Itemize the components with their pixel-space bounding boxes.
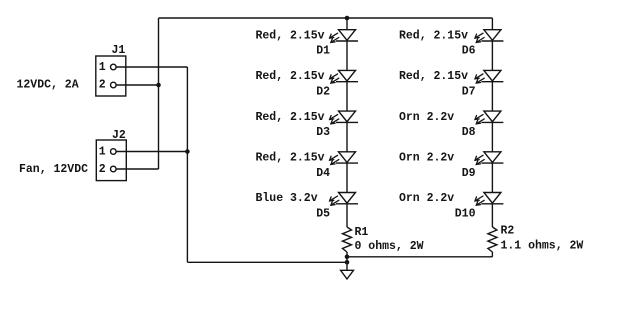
- wire right LED column: [491, 18, 493, 227]
- LED D5: [330, 193, 358, 206]
- LED D8: [475, 111, 503, 124]
- junction dot R1 / right bus: [345, 254, 350, 259]
- svg-text:Fan, 12VDC: Fan, 12VDC: [19, 163, 88, 176]
- wire top bus: [159, 17, 493, 19]
- svg-text:D7: D7: [462, 85, 476, 98]
- wire left LED column: [346, 18, 348, 227]
- junction dot bottom bus / ground: [345, 260, 350, 265]
- svg-text:Orn 2.2v: Orn 2.2v: [399, 152, 454, 165]
- wire R2 bottom lead: [491, 252, 493, 257]
- resistor R2: [488, 227, 497, 252]
- svg-text:Orn 2.2v: Orn 2.2v: [399, 192, 454, 205]
- LED D7: [475, 70, 503, 83]
- LED D3: [330, 111, 358, 124]
- connector J1: [96, 56, 126, 96]
- svg-text:Red, 2.15v: Red, 2.15v: [256, 152, 325, 165]
- svg-text:D5: D5: [316, 208, 330, 221]
- svg-text:R2: R2: [501, 225, 515, 238]
- wire line A vertical (top bus to J2.2): [158, 18, 160, 169]
- svg-text:D10: D10: [455, 208, 476, 221]
- svg-text:D4: D4: [316, 167, 330, 180]
- wire J2 pin1 to line B: [116, 151, 187, 153]
- resistor R1: [343, 227, 352, 252]
- LED D9: [475, 152, 503, 165]
- svg-text:2: 2: [99, 79, 106, 92]
- svg-text:0 ohms, 2W: 0 ohms, 2W: [355, 240, 424, 253]
- svg-text:Red, 2.15v: Red, 2.15v: [399, 70, 468, 83]
- LED D4: [330, 152, 358, 165]
- LED D10: [475, 193, 503, 206]
- svg-text:Red, 2.15v: Red, 2.15v: [256, 29, 325, 42]
- svg-text:D3: D3: [316, 126, 330, 139]
- junction dot J1.2 / line A: [156, 83, 161, 88]
- LED D6: [475, 30, 503, 43]
- wire J2 pin2 to line A: [116, 168, 158, 170]
- svg-text:D1: D1: [316, 45, 330, 58]
- svg-text:J2: J2: [112, 129, 126, 142]
- junction dot J2.1 / line B: [185, 149, 190, 154]
- wire right bus (ground node to R2): [347, 256, 492, 258]
- svg-text:Blue 3.2v: Blue 3.2v: [256, 192, 318, 205]
- svg-text:D9: D9: [462, 167, 476, 180]
- svg-text:J1: J1: [112, 44, 126, 57]
- svg-text:Red, 2.15v: Red, 2.15v: [256, 111, 325, 124]
- wire J1 pin1 to line B: [116, 66, 187, 68]
- svg-text:D2: D2: [316, 85, 330, 98]
- svg-text:1.1 ohms, 2W: 1.1 ohms, 2W: [501, 240, 584, 253]
- svg-text:D6: D6: [462, 45, 476, 58]
- connector J2: [96, 140, 126, 181]
- LED D1: [330, 30, 358, 43]
- wire R1 bottom lead to ground stem: [346, 252, 348, 270]
- junction dot top bus / left LED column: [345, 16, 350, 21]
- svg-text:R1: R1: [355, 226, 369, 239]
- svg-text:Orn 2.2v: Orn 2.2v: [399, 111, 454, 124]
- svg-text:12VDC, 2A: 12VDC, 2A: [17, 78, 79, 91]
- svg-text:D8: D8: [462, 126, 476, 139]
- LED D2: [330, 70, 358, 83]
- wire line B vertical (J1.1 / J2.1 to bottom bus): [186, 67, 188, 262]
- ground: [341, 270, 354, 279]
- wire bottom bus (line B to ground node): [187, 261, 347, 263]
- svg-text:2: 2: [99, 163, 106, 176]
- svg-text:1: 1: [99, 61, 106, 74]
- svg-text:1: 1: [99, 146, 106, 159]
- svg-text:Red, 2.15v: Red, 2.15v: [256, 70, 325, 83]
- svg-text:Red, 2.15v: Red, 2.15v: [399, 29, 468, 42]
- wire J1 pin2 to line A: [116, 84, 158, 86]
